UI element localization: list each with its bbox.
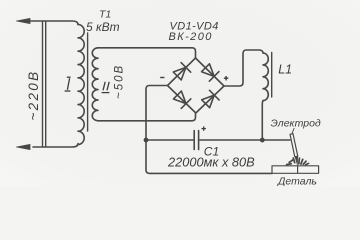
bridge diamond edge bottom-right	[196, 86, 224, 113]
svg-text:Деталь: Деталь	[277, 176, 317, 187]
bridge diamond edge left-top	[168, 58, 196, 86]
label plus C1	[202, 126, 206, 130]
mains plug arrow top	[17, 18, 31, 23]
svg-text:22000мк х 80В: 22000мк х 80В	[167, 154, 255, 169]
transformer T1 primary winding I	[78, 25, 84, 145]
transformer T1 core	[87, 33, 89, 131]
svg-text:~50В: ~50В	[113, 64, 125, 99]
wire secondary top to bridge	[98, 48, 196, 58]
capacitor C1 plates	[193, 131, 195, 150]
wire C1 right to electrode	[199, 139, 290, 141]
label minus	[160, 77, 164, 79]
wire L1 bottom to node	[261, 101, 264, 140]
mains plug arrow bottom	[17, 144, 31, 149]
svg-text:~220В: ~220В	[26, 70, 41, 121]
diode VD4	[201, 90, 219, 108]
label winding II	[102, 82, 110, 93]
svg-text:5 кВт: 5 кВт	[86, 20, 120, 34]
junction node plus output	[260, 138, 265, 143]
electrode stick	[290, 134, 298, 157]
wire mains top	[28, 21, 78, 25]
svg-text:ВК-200: ВК-200	[169, 31, 213, 43]
workpiece bar	[272, 166, 319, 174]
bridge diamond edge top-right	[196, 58, 225, 86]
wire bridge plus output to L1	[224, 50, 263, 86]
inductor L1 winding	[263, 53, 268, 101]
svg-text:L1: L1	[278, 63, 292, 77]
electrode leader line	[292, 129, 294, 135]
wire bridge minus output	[146, 86, 272, 174]
svg-text:Электрод: Электрод	[271, 117, 321, 129]
label winding I	[65, 77, 71, 91]
diode VD2	[201, 63, 219, 81]
transformer T1 secondary winding II	[92, 48, 98, 121]
wire secondary bottom to bridge	[98, 113, 196, 121]
svg-text:Т1: Т1	[99, 9, 111, 21]
junction node minus	[144, 138, 149, 143]
label plus	[224, 76, 228, 80]
wire mains vertical pair	[42, 22, 44, 147]
bridge diamond edge left-bottom	[168, 86, 196, 114]
diode VD1	[172, 63, 190, 81]
weld sparks	[287, 163, 292, 166]
wire C1 left	[146, 139, 194, 141]
inductor L1 core	[271, 53, 273, 98]
diode VD3	[173, 90, 191, 108]
wire mains bottom	[33, 144, 78, 148]
